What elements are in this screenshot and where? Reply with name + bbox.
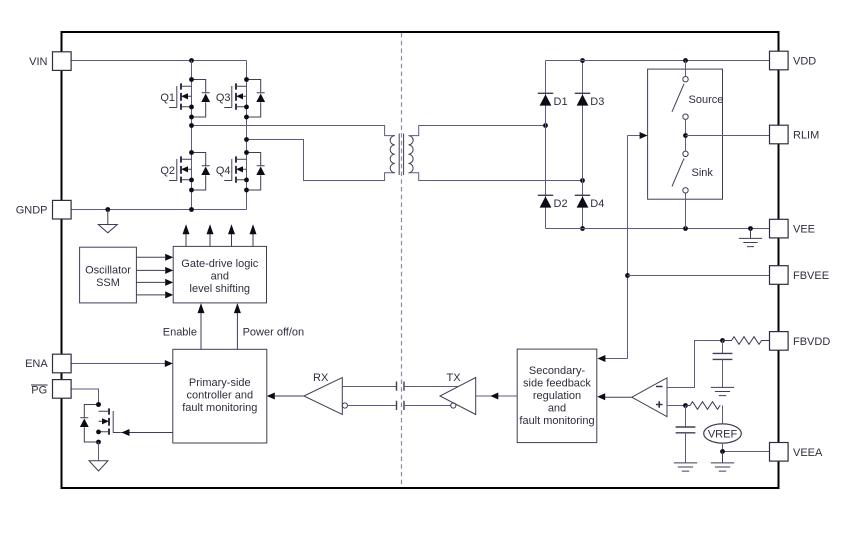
wire GNDP bottom rail [71, 207, 247, 212]
svg-text:VDD: VDD [793, 56, 816, 68]
svg-text:fault monitoring: fault monitoring [519, 415, 594, 427]
pin GNDP [16, 200, 71, 219]
svg-text:Oscillator: Oscillator [85, 265, 131, 277]
ground (GNDP signal ground) [98, 210, 117, 233]
pin FBVEE [770, 266, 830, 285]
wire oscillator to gate-drive arrow 2 [136, 267, 173, 274]
block Oscillator SSM [80, 247, 137, 303]
svg-text:and: and [211, 271, 229, 283]
svg-text:level shifting: level shifting [190, 283, 251, 295]
wire VIN top rail [71, 58, 247, 63]
wire secondary box to TX arrow [476, 393, 518, 400]
resistor VREF [686, 402, 721, 410]
ground (PG signal ground) [89, 461, 108, 471]
svg-text:fault monitoring: fault monitoring [182, 402, 257, 414]
svg-text:Power off/on: Power off/on [243, 327, 305, 339]
svg-text:RX: RX [313, 372, 329, 384]
pin PG [31, 380, 71, 399]
svg-text:regulation: regulation [533, 390, 581, 402]
wire sink to VEE [685, 193, 687, 229]
ground (VREF earth) [711, 452, 734, 472]
transistor PG pull-down FET [80, 402, 121, 444]
wire op-amp output to secondary box arrow [597, 393, 632, 400]
wire switch control with arrow [628, 132, 648, 139]
switch Sink [672, 151, 688, 193]
capacitor plus input [676, 406, 696, 463]
wire op-amp plus input node [667, 403, 688, 408]
svg-text:Enable: Enable [163, 327, 197, 339]
wire PG FET source to ground [98, 442, 100, 461]
label Primary-side controller and fault monitoring [182, 377, 257, 414]
transistor Q3 [224, 77, 265, 119]
svg-text:FBVEE: FBVEE [793, 270, 829, 282]
svg-text:Q4: Q4 [216, 165, 231, 177]
svg-text:RLIM: RLIM [793, 130, 819, 142]
svg-text:PG: PG [31, 385, 47, 397]
transformer T1 primary winding [390, 136, 395, 173]
isolation barrier dashed line [401, 33, 403, 487]
svg-text:side feedback: side feedback [523, 378, 591, 390]
svg-text:FBVDD: FBVDD [793, 336, 830, 348]
transistor Q4 [224, 150, 265, 192]
label Oscillator SSM [85, 265, 131, 290]
svg-text:Q2: Q2 [160, 165, 175, 177]
svg-text:VEEA: VEEA [793, 447, 823, 459]
wire secondary top lead [409, 123, 548, 136]
wire RX top line [342, 386, 396, 388]
transistor Q1 [169, 77, 210, 119]
svg-text:controller and: controller and [186, 390, 253, 402]
buffer TX [440, 378, 476, 415]
wire op-amp minus input to FBVDD node [667, 338, 725, 387]
svg-text:GNDP: GNDP [16, 204, 48, 216]
svg-text:D4: D4 [590, 198, 604, 210]
pin RLIM [770, 125, 820, 144]
node Q3/Q4 column [246, 61, 248, 210]
wire PG to pulldown drain [71, 389, 101, 407]
wire feedback control vertical [625, 136, 630, 359]
capacitor FBVDD node [713, 341, 733, 388]
svg-text:D3: D3 [590, 96, 604, 108]
svg-text:D2: D2 [554, 198, 568, 210]
svg-text:VEE: VEE [793, 224, 815, 236]
wire primary top lead [189, 123, 395, 136]
wire gate-drive output arrow 2 [207, 224, 214, 246]
switch block box [648, 69, 723, 199]
svg-text:Primary-side: Primary-side [189, 377, 251, 389]
svg-text:VREF: VREF [708, 429, 738, 441]
wire oscillator to gate-drive arrow 3 [136, 279, 173, 286]
svg-text:SSM: SSM [96, 277, 120, 289]
block Secondary-side feedback regulation and fault monitoring [517, 349, 597, 443]
wire oscillator to gate-drive arrow 1 [136, 254, 173, 261]
diode D3 [575, 93, 590, 105]
capacitor isolation top [397, 382, 405, 391]
block Primary-side controller and fault monitoring [173, 349, 267, 443]
svg-text:TX: TX [447, 372, 462, 384]
resistor FBVDD [723, 337, 770, 345]
transformer T1 core [399, 134, 403, 176]
wire Enable arrow [198, 303, 205, 349]
wire gate-drive output arrow 3 [228, 224, 235, 246]
svg-text:Sink: Sink [692, 167, 714, 179]
wire gate-drive output arrow 1 [183, 224, 190, 246]
wire Power off/on arrow [234, 303, 241, 349]
transistor Q2 [169, 150, 210, 192]
label Secondary-side feedback regulation and fault monitoring [519, 365, 594, 427]
pin VDD [770, 51, 817, 70]
reference VREF [704, 424, 742, 443]
node rectifier left rail [545, 61, 547, 229]
transformer T1 secondary winding [409, 136, 414, 173]
ground (plus input cap earth) [674, 463, 697, 471]
node rectifier right rail [580, 58, 585, 231]
svg-text:ENA: ENA [25, 358, 48, 370]
svg-text:and: and [548, 403, 566, 415]
pin VEEA [770, 443, 824, 462]
wire secondary bottom lead [409, 173, 585, 183]
svg-text:Source: Source [689, 94, 724, 106]
IC outer border [62, 32, 779, 488]
pin FBVDD [770, 332, 831, 351]
wire RLIM [686, 135, 770, 137]
wire switch top connection [685, 61, 687, 77]
diode D1 [538, 93, 553, 105]
switch Source [672, 77, 688, 120]
wire FBVEE [628, 275, 770, 277]
wire primary bottom lead [244, 137, 395, 180]
wire RX bottom line [348, 405, 397, 407]
svg-text:Q1: Q1 [160, 92, 175, 104]
svg-text:VIN: VIN [29, 56, 47, 68]
wire controller to PG gate arrow [121, 429, 173, 436]
buffer RX [304, 378, 348, 415]
svg-text:Secondary-: Secondary- [529, 365, 586, 377]
wire VDD rail [546, 58, 770, 63]
wire TX top line [404, 386, 458, 388]
ground (FBVDD cap earth) [711, 387, 734, 395]
capacitor isolation bottom [397, 401, 405, 410]
block Gate-drive logic and level shifting [173, 246, 266, 303]
wire into secondary box with arrow [597, 355, 627, 362]
svg-text:Gate-drive logic: Gate-drive logic [181, 258, 259, 270]
pin VIN [29, 52, 71, 71]
pin ENA [25, 354, 71, 373]
wire switch mid node [683, 119, 688, 151]
svg-text:Q3: Q3 [216, 92, 231, 104]
wire ENA to controller arrow [71, 360, 173, 367]
pin VEE [770, 219, 816, 238]
wire RX output to controller arrow [267, 393, 304, 400]
wire resistor to VREF [722, 406, 724, 425]
label Gate-drive logic and level shifting [181, 258, 259, 295]
wire VREF to VEEA [720, 443, 769, 454]
wire gate-drive output arrow 4 [250, 224, 257, 246]
svg-text:D1: D1 [554, 96, 568, 108]
op-amp U1 error amplifier [632, 378, 667, 417]
diode D2 [538, 195, 553, 207]
node Q1/Q2 column [191, 61, 193, 210]
ground (VEE earth) [739, 229, 762, 247]
wire VEE rail [546, 226, 770, 231]
diode D4 [575, 195, 590, 207]
wire TX bottom line [404, 405, 451, 407]
wire oscillator to gate-drive arrow 4 [136, 291, 173, 298]
